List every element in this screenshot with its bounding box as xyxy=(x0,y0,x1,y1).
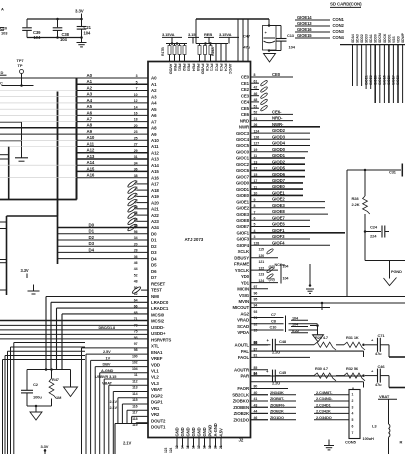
svg-text:GIOE15: GIOE15 xyxy=(297,33,312,38)
svg-text:16: 16 xyxy=(134,224,138,228)
svg-text:VDD: VDD xyxy=(151,362,160,367)
capacitor C46 xyxy=(371,364,385,387)
svg-text:A5: A5 xyxy=(151,107,157,112)
svg-text:D5: D5 xyxy=(151,263,157,268)
svg-text:AVCC: AVCC xyxy=(228,64,233,75)
svg-text:SDD1: SDD1 xyxy=(387,34,391,43)
wire A9 xyxy=(0,133,148,135)
svg-text:GIOF4: GIOF4 xyxy=(272,240,285,245)
block 2.1V xyxy=(115,424,148,454)
svg-text:CE2: CE2 xyxy=(241,87,250,92)
svg-text:GND: GND xyxy=(180,427,185,436)
svg-text:D3: D3 xyxy=(89,241,95,246)
IC refdes J2 xyxy=(239,438,244,443)
svg-text:J2: J2 xyxy=(239,438,244,443)
svg-text:SDD2: SDD2 xyxy=(360,34,364,43)
svg-text:D6: D6 xyxy=(151,269,157,274)
resistor R47 xyxy=(49,370,61,407)
svg-text:18: 18 xyxy=(203,445,207,449)
IC right pin GIOE3 row xyxy=(236,209,328,217)
capacitor C20 (edge fragment) xyxy=(0,7,8,36)
capacitor C7 xyxy=(251,312,309,332)
power net labels xyxy=(95,349,117,410)
svg-text:VL3: VL3 xyxy=(151,381,159,386)
svg-text:14: 14 xyxy=(134,217,138,221)
pin numbers bottom left xyxy=(164,448,173,453)
svg-text:AOUTL: AOUTL xyxy=(235,343,250,348)
wire A14 xyxy=(77,164,149,166)
IC right pin GIOF1 row xyxy=(236,228,345,236)
svg-text:D: D xyxy=(1,70,4,75)
svg-text:PVDD: PVDD xyxy=(201,64,206,75)
svg-text:R28: R28 xyxy=(352,196,360,201)
svg-text:10: 10 xyxy=(134,205,138,209)
resistor R32 xyxy=(336,366,378,381)
svg-text:A0: A0 xyxy=(151,76,157,81)
svg-text:LRADC1: LRADC1 xyxy=(151,306,169,311)
svg-text:GIOC0: GIOC0 xyxy=(236,150,250,155)
svg-text:GIOC1: GIOC1 xyxy=(236,156,250,161)
svg-text:GIOE8: GIOE8 xyxy=(272,209,285,214)
wire A6 xyxy=(77,114,149,116)
svg-text:124: 124 xyxy=(169,448,173,453)
svg-text:CE1: CE1 xyxy=(241,81,250,86)
ground xyxy=(77,38,87,47)
ground xyxy=(264,54,276,63)
svg-text:VSIG: VSIG xyxy=(239,293,250,298)
svg-text:GIOE3: GIOE3 xyxy=(272,203,285,208)
svg-text:ZIOB2K: ZIOB2K xyxy=(234,411,250,416)
svg-text:CE0: CE0 xyxy=(241,75,250,80)
IC right pin VRAD row xyxy=(237,316,257,323)
svg-text:D7: D7 xyxy=(151,275,157,280)
svg-text:C10: C10 xyxy=(270,325,277,330)
IC right pin VSIG row xyxy=(239,291,405,298)
svg-text:GIOC3: GIOC3 xyxy=(236,131,250,136)
svg-text:GIOE7: GIOE7 xyxy=(272,215,285,220)
bus wires stair1 xyxy=(46,297,148,370)
svg-text:104: 104 xyxy=(34,35,41,40)
svg-text:47u: 47u xyxy=(243,45,250,50)
svg-text:A-GND: A-GND xyxy=(213,423,218,436)
wires GIOE to SD CON xyxy=(295,15,345,40)
svg-text:C: C xyxy=(0,82,3,86)
svg-text:SB2CLK: SB2CLK xyxy=(232,392,250,397)
svg-text:A22: A22 xyxy=(151,213,159,218)
svg-text:VBAT: VBAT xyxy=(102,380,113,385)
svg-text:25: 25 xyxy=(134,136,138,140)
IC right pin VPDA row xyxy=(237,329,257,336)
IC right pin GIOC3 row xyxy=(236,128,310,136)
IC right pin SCAD row xyxy=(237,322,257,329)
IC bottom pin stubs xyxy=(175,438,223,450)
IC right pin SB2CLK row xyxy=(232,391,268,398)
svg-text:PGND: PGND xyxy=(391,269,402,274)
svg-text:SDA4: SDA4 xyxy=(351,34,355,43)
svg-text:114: 114 xyxy=(132,392,137,396)
svg-text:5: 5 xyxy=(136,80,138,84)
IC right pin GIOE0 row xyxy=(236,191,303,199)
IC right pin GIOE7 row xyxy=(236,222,310,230)
svg-text:A17: A17 xyxy=(151,182,159,187)
resistor array R24A xyxy=(196,19,228,62)
IC right pin PAR row xyxy=(240,372,363,379)
IC name ATJ 2073 xyxy=(185,237,204,242)
svg-text:23: 23 xyxy=(134,130,138,134)
svg-text:7: 7 xyxy=(352,431,354,435)
svg-text:FRAME: FRAME xyxy=(234,262,249,267)
ground xyxy=(28,285,40,295)
svg-text:GIOD0: GIOD0 xyxy=(272,147,286,152)
svg-text:GIOD1: GIOD1 xyxy=(236,187,250,192)
svg-text:GIOE2: GIOE2 xyxy=(369,75,373,85)
svg-text:14: 14 xyxy=(181,445,185,449)
svg-text:3.15VA: 3.15VA xyxy=(162,32,175,37)
svg-text:GND: GND xyxy=(202,427,207,436)
IC right pin GIOC5 row xyxy=(236,141,310,149)
svg-text:TP: TP xyxy=(18,63,23,68)
capacitor C39 xyxy=(22,19,41,40)
svg-text:A24: A24 xyxy=(151,225,159,230)
svg-text:SD CARD(CON): SD CARD(CON) xyxy=(330,2,362,7)
svg-text:USBVR 3.15: USBVR 3.15 xyxy=(95,374,117,379)
svg-text:3.3V: 3.3V xyxy=(21,268,29,273)
svg-text:SDA3: SDA3 xyxy=(356,34,360,43)
svg-text:GIOE7: GIOE7 xyxy=(392,75,396,85)
wire long rail xyxy=(251,296,405,298)
svg-text:GIOE4: GIOE4 xyxy=(378,75,382,85)
svg-text:28: 28 xyxy=(134,249,138,253)
svg-text:2.1V: 2.1V xyxy=(123,441,132,446)
svg-text:2.2U: 2.2U xyxy=(272,350,280,355)
wire pll rail xyxy=(196,18,269,20)
svg-text:PB4: PB4 xyxy=(191,64,196,72)
net labels A0-A16 xyxy=(87,73,95,178)
svg-text:3: 3 xyxy=(352,405,354,409)
svg-text:XTL: XTL xyxy=(151,344,159,349)
svg-text:GIOC6: GIOC6 xyxy=(236,168,250,173)
svg-text:1: 1 xyxy=(352,393,354,397)
svg-text:CON3: CON3 xyxy=(333,29,345,34)
svg-text:R32 56: R32 56 xyxy=(346,366,359,371)
IC right pin DBUSY row xyxy=(234,254,278,261)
svg-text:ZIO1DO: ZIO1DO xyxy=(233,417,249,422)
svg-text:GND: GND xyxy=(196,427,201,436)
ground xyxy=(64,370,78,397)
wires to bottom-left edge xyxy=(3,343,86,454)
svg-text:PB3: PB3 xyxy=(187,64,192,72)
svg-text:A11: A11 xyxy=(151,144,159,149)
svg-text:GIOE8: GIOE8 xyxy=(396,75,400,85)
svg-text:CE4: CE4 xyxy=(241,100,250,105)
capacitor C10 xyxy=(251,325,318,333)
svg-text:ZIOB8T-: ZIOB8T- xyxy=(270,396,285,401)
svg-text:47u: 47u xyxy=(375,382,382,387)
IC right pin GIOD1 row xyxy=(236,184,303,192)
svg-text:38: 38 xyxy=(134,174,138,178)
power wires stair2 xyxy=(82,348,149,454)
svg-text:2.C34D1: 2.C34D1 xyxy=(316,402,332,407)
svg-text:CON4: CON4 xyxy=(333,35,345,40)
svg-text:A: A xyxy=(1,7,4,12)
svg-text:D0: D0 xyxy=(151,232,157,237)
svg-text:PB0: PB0 xyxy=(173,64,178,72)
svg-text:ZIOB2K: ZIOB2K xyxy=(270,409,284,414)
capacitor C47 xyxy=(243,19,276,50)
svg-text:103: 103 xyxy=(1,31,8,36)
IC right pin CE5 row xyxy=(241,104,268,111)
svg-text:YD0: YD0 xyxy=(241,274,250,279)
svg-text:34: 34 xyxy=(134,161,138,165)
svg-text:D4: D4 xyxy=(89,247,95,252)
svg-text:11: 11 xyxy=(134,373,138,377)
IC right pin FAOL row xyxy=(238,354,310,361)
wire A2 xyxy=(77,90,149,92)
svg-text:GIOE16: GIOE16 xyxy=(297,27,312,32)
svg-text:16: 16 xyxy=(134,112,138,116)
resistor R31 xyxy=(336,335,378,350)
svg-text:C7: C7 xyxy=(271,312,276,317)
svg-text:GIOE5: GIOE5 xyxy=(383,75,387,85)
svg-text:A4: A4 xyxy=(87,98,93,103)
svg-text:VPDA: VPDA xyxy=(237,330,250,335)
svg-text:19: 19 xyxy=(208,445,212,449)
svg-text:13: 13 xyxy=(175,445,179,449)
svg-text:PC3: PC3 xyxy=(219,64,224,72)
svg-text:A8: A8 xyxy=(87,123,93,128)
svg-text:115: 115 xyxy=(132,398,137,402)
svg-text:GIOD0: GIOD0 xyxy=(236,181,250,186)
svg-text:8: 8 xyxy=(136,199,138,203)
svg-text:50: 50 xyxy=(134,286,138,290)
IC right pin ZIO1DO row xyxy=(233,416,268,423)
svg-text:A1: A1 xyxy=(151,82,157,87)
svg-text:R30 4.7: R30 4.7 xyxy=(315,366,328,371)
svg-text:3.3V: 3.3V xyxy=(41,444,49,449)
svg-text:95: 95 xyxy=(254,298,258,302)
svg-text:C71: C71 xyxy=(378,333,386,338)
svg-text:A10: A10 xyxy=(151,138,159,143)
svg-text:PC4: PC4 xyxy=(224,64,229,72)
svg-text:A11: A11 xyxy=(87,141,95,146)
IC right pin FRAME row xyxy=(234,260,264,267)
svg-text:A16: A16 xyxy=(151,175,159,180)
IC right pin GIOE1 row xyxy=(236,197,325,205)
capacitor C38 xyxy=(53,18,70,42)
SD CARD header xyxy=(330,2,362,8)
svg-text:20: 20 xyxy=(214,445,218,449)
svg-text:ZIOBFN-: ZIOBFN- xyxy=(270,402,286,407)
svg-text:97: 97 xyxy=(134,342,138,346)
svg-text:FAOR: FAOR xyxy=(237,386,250,391)
svg-text:VSS: VSS xyxy=(392,36,396,43)
IC left pin names xyxy=(151,76,171,430)
svg-text:2.C4M8T-: 2.C4M8T- xyxy=(316,390,333,395)
svg-text:ZIOBEN: ZIOBEN xyxy=(233,405,249,410)
svg-text:ZIOBKO: ZIOBKO xyxy=(233,399,250,404)
capacitor C13 xyxy=(269,26,296,51)
IC right pin GIOF4 row xyxy=(236,240,330,248)
IC right pin AOUTR row xyxy=(234,366,268,373)
svg-text:A16: A16 xyxy=(87,173,95,178)
svg-text:GIOE8: GIOE8 xyxy=(236,218,249,223)
svg-text:DOUT2: DOUT2 xyxy=(151,418,166,423)
SD connector top labels xyxy=(340,32,405,44)
svg-text:100u: 100u xyxy=(33,395,42,400)
svg-text:RESET: RESET xyxy=(151,281,166,286)
capacitor C71 xyxy=(371,333,385,356)
resistor R30 xyxy=(275,366,336,381)
svg-text:29: 29 xyxy=(134,149,138,153)
svg-text:4.5V: 4.5V xyxy=(218,428,223,437)
IC right pin MVIN row xyxy=(239,298,405,305)
svg-text:2: 2 xyxy=(352,399,354,403)
wire A3 xyxy=(77,96,149,98)
svg-text:YD1: YD1 xyxy=(241,280,250,285)
svg-text:R31 1K: R31 1K xyxy=(346,335,359,340)
svg-text:15: 15 xyxy=(186,445,190,449)
svg-text:1M: 1M xyxy=(56,395,61,400)
IC right pin YSCLK row xyxy=(235,266,278,273)
svg-text:DBC/D1.8: DBC/D1.8 xyxy=(99,326,116,330)
svg-text:PC0: PC0 xyxy=(205,64,210,72)
svg-text:SDD3: SDD3 xyxy=(365,34,369,43)
svg-text:GIOF3: GIOF3 xyxy=(236,237,249,242)
svg-text:A7: A7 xyxy=(151,119,157,124)
svg-text:93: 93 xyxy=(254,310,258,314)
svg-text:0.22: 0.22 xyxy=(292,329,299,333)
svg-text:R17B: R17B xyxy=(161,47,165,56)
svg-text:C47: C47 xyxy=(243,34,251,39)
svg-text:D1: D1 xyxy=(89,229,95,234)
svg-text:18: 18 xyxy=(134,118,138,122)
svg-text:CE5: CE5 xyxy=(241,106,250,111)
net flag D xyxy=(0,70,7,75)
svg-text:GND: GND xyxy=(191,427,196,436)
svg-text:2.C342K: 2.C342K xyxy=(316,409,331,414)
ground xyxy=(324,440,334,450)
svg-text:123: 123 xyxy=(259,273,265,277)
resistor array R17B xyxy=(161,42,187,61)
svg-text:SDWP: SDWP xyxy=(401,32,405,43)
IC top pin names xyxy=(168,64,233,75)
svg-text:2N343K: 2N343K xyxy=(270,390,284,395)
svg-text:SDCK: SDCK xyxy=(383,33,387,43)
svg-text:HSRVRTS: HSRVRTS xyxy=(151,337,171,342)
svg-text:56: 56 xyxy=(134,230,138,234)
svg-text:2.1V: 2.1V xyxy=(110,406,118,410)
IC right pin NWR row xyxy=(239,122,320,130)
svg-text:36: 36 xyxy=(134,255,138,259)
net flag C xyxy=(0,82,3,86)
svg-text:CE6-: CE6- xyxy=(272,110,282,115)
svg-text:A23: A23 xyxy=(151,219,159,224)
svg-text:21: 21 xyxy=(219,445,223,449)
data bus wires D0-D5 xyxy=(58,228,149,259)
wire edge stubs xyxy=(0,147,9,200)
svg-text:5: 5 xyxy=(352,418,354,422)
svg-text:GIOD6: GIOD6 xyxy=(272,172,286,177)
svg-text:XCLK: XCLK xyxy=(238,249,250,254)
label R xyxy=(400,440,403,445)
svg-text:7: 7 xyxy=(136,87,138,91)
IC right pin GIOC2 row xyxy=(236,159,305,167)
svg-text:A1: A1 xyxy=(87,79,93,84)
svg-text:NRD: NRD xyxy=(240,118,249,123)
connector CON5 xyxy=(345,390,360,445)
svg-text:52: 52 xyxy=(134,274,138,278)
svg-text:31: 31 xyxy=(134,155,138,159)
svg-text:GIOD1: GIOD1 xyxy=(272,153,286,158)
svg-text:3.3V: 3.3V xyxy=(75,9,84,14)
bus entry TEST pin xyxy=(132,286,148,294)
svg-text:DBUSY: DBUSY xyxy=(234,255,249,260)
svg-text:4: 4 xyxy=(352,412,354,416)
svg-text:C24: C24 xyxy=(370,225,378,230)
svg-text:NWR-: NWR- xyxy=(272,122,284,127)
svg-text:GIOF1: GIOF1 xyxy=(272,228,285,233)
wire SDHI rail xyxy=(365,232,405,261)
resistor R29 xyxy=(275,335,336,350)
svg-text:VL2: VL2 xyxy=(151,375,159,380)
svg-text:116: 116 xyxy=(132,404,137,408)
svg-text:1V: 1V xyxy=(106,355,111,360)
IC right pin GIOF3 row xyxy=(236,234,310,242)
svg-text:GND: GND xyxy=(174,427,179,436)
svg-text:ENA1: ENA1 xyxy=(151,350,163,355)
svg-text:36: 36 xyxy=(134,168,138,172)
svg-text:NWR: NWR xyxy=(239,125,250,130)
svg-text:GIOE6: GIOE6 xyxy=(272,222,285,227)
svg-text:A14: A14 xyxy=(151,163,159,168)
IC right pin ZIOB2K row xyxy=(234,410,268,417)
IC right pin NRD row xyxy=(240,116,293,124)
IC left pin numbers xyxy=(132,74,138,427)
IC right pin GIOC7 row xyxy=(236,172,305,180)
wire A10 xyxy=(77,139,149,141)
svg-text:USDD-: USDD- xyxy=(151,325,165,330)
wire A5 xyxy=(77,108,149,110)
wire xyxy=(268,49,281,52)
svg-text:NMI: NMI xyxy=(151,294,159,299)
svg-text:10: 10 xyxy=(134,93,138,97)
net stub 3.3V bottom xyxy=(41,444,49,454)
svg-text:C45: C45 xyxy=(279,370,287,375)
svg-text:VBAT: VBAT xyxy=(379,394,390,399)
svg-text:A-GND: A-GND xyxy=(101,368,114,373)
svg-text:4: 4 xyxy=(136,186,138,190)
svg-text:A13: A13 xyxy=(87,154,95,159)
IC right pin XCLK row xyxy=(238,248,274,255)
inductor L3 xyxy=(363,424,390,454)
memory block U4 xyxy=(7,216,58,295)
net labels D0-D4 xyxy=(89,222,95,252)
svg-text:DBV: DBV xyxy=(103,362,111,367)
svg-text:C2: C2 xyxy=(33,382,39,387)
svg-text:DGP1: DGP1 xyxy=(151,400,163,405)
svg-text:91: 91 xyxy=(254,316,258,320)
wire stub xyxy=(0,121,22,123)
test point TP7 xyxy=(17,58,25,87)
svg-text:GIOE1: GIOE1 xyxy=(364,75,368,85)
memory block U3 xyxy=(57,92,59,217)
IC right pin CE3 row xyxy=(241,92,268,99)
IC right pin ZIOBEN row xyxy=(233,403,268,410)
IC right pin CE1 row xyxy=(241,79,268,86)
svg-text:115: 115 xyxy=(259,248,264,252)
ground xyxy=(27,405,52,420)
svg-text:(33): (33) xyxy=(269,277,276,281)
